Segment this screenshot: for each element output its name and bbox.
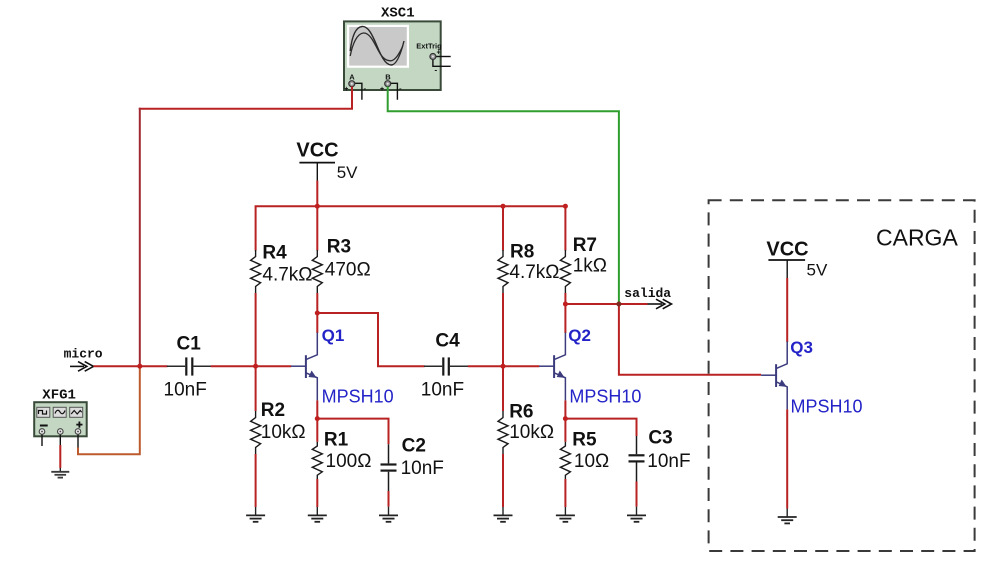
ground C2 <box>379 515 398 521</box>
junction VCC rail <box>315 204 320 209</box>
wire emitter node to C2 <box>316 419 388 445</box>
junction Q2 collector / salida <box>563 302 568 307</box>
wire R8 to R6 (through base node) <box>502 293 504 411</box>
wire micro to C1 <box>94 365 168 367</box>
junction salida green <box>616 302 621 307</box>
node micro input arrow <box>64 346 103 371</box>
transistor Q3 <box>761 342 787 410</box>
svg-text:R3: R3 <box>327 237 351 258</box>
svg-text:5V: 5V <box>807 261 828 280</box>
wire R1 to ground <box>316 479 318 507</box>
svg-text:R7: R7 <box>573 235 597 256</box>
wire collector tap to C4 <box>317 313 424 366</box>
XFG1 terminal plus <box>75 429 81 448</box>
junction R8-R6 / Q2 base <box>501 364 506 369</box>
resistor R6 <box>498 411 508 454</box>
wire R3 to Q1 collector <box>316 293 318 333</box>
capacitor C4 <box>424 357 468 375</box>
svg-text:C3: C3 <box>648 428 672 449</box>
capacitor C1 <box>167 357 212 375</box>
wire R4 to R2 (through base node) <box>255 293 257 411</box>
svg-text:Q2: Q2 <box>568 326 591 345</box>
scope channel B terminal <box>380 73 402 100</box>
ground Q3 <box>778 517 797 523</box>
wire R2 to ground <box>255 454 257 507</box>
svg-text:VCC: VCC <box>296 140 338 162</box>
wire Q2 collector to salida <box>565 303 647 305</box>
svg-text:10kΩ: 10kΩ <box>261 422 306 443</box>
svg-text:R8: R8 <box>510 242 534 263</box>
svg-text:MPSH10: MPSH10 <box>791 397 863 417</box>
resistor R3 <box>312 250 322 293</box>
wire scope B green <box>388 87 619 305</box>
svg-text:R5: R5 <box>572 430 597 451</box>
ground C3 <box>627 515 646 521</box>
svg-text:10nF: 10nF <box>164 380 207 401</box>
transistor Q1 <box>291 333 317 401</box>
wire C2 to ground <box>388 491 390 507</box>
junction Q2 emitter node <box>563 416 568 421</box>
svg-text:4.7kΩ: 4.7kΩ <box>509 262 559 283</box>
svg-text:Q1: Q1 <box>322 326 345 345</box>
svg-text:R6: R6 <box>509 402 533 423</box>
svg-text:C2: C2 <box>402 436 426 457</box>
wire rail to R3 <box>316 206 318 250</box>
ground R6 <box>494 515 513 521</box>
load box CARGA (dashed) <box>709 200 975 551</box>
svg-text:1kΩ: 1kΩ <box>573 256 607 277</box>
wire C4 to Q2 base <box>468 365 540 367</box>
ground R5 <box>556 515 575 521</box>
node salida output arrow <box>624 286 671 309</box>
wire VCC rail <box>255 205 567 207</box>
svg-text:salida: salida <box>624 286 671 301</box>
svg-text:5V: 5V <box>337 163 358 182</box>
wire scope A vertical <box>351 87 353 109</box>
resistor R1 <box>312 442 322 479</box>
wire R6 to ground <box>502 454 504 507</box>
ground XFG1 <box>51 472 69 478</box>
svg-text:MPSH10: MPSH10 <box>322 387 394 407</box>
svg-text:4.7kΩ: 4.7kΩ <box>262 265 312 286</box>
wire salida node to Q3 base <box>619 303 761 375</box>
wire emitter node to C3 <box>564 419 636 436</box>
wire VCC to Q3 collector <box>786 278 788 342</box>
wire VCC stem <box>316 181 318 208</box>
junction C1 / R4-R2 <box>253 364 258 369</box>
svg-text:10nF: 10nF <box>647 451 690 472</box>
wire R5 to ground <box>564 479 566 507</box>
wire XFG1 plus to micro node (orange) <box>78 365 140 454</box>
svg-text:10Ω: 10Ω <box>574 451 609 472</box>
svg-text:VCC: VCC <box>766 239 808 261</box>
svg-text:10nF: 10nF <box>401 458 444 479</box>
transistor Q2 <box>539 333 565 401</box>
svg-text:-: - <box>399 84 402 93</box>
svg-text:micro: micro <box>64 346 103 361</box>
resistor R7 <box>560 250 570 293</box>
svg-text:Q3: Q3 <box>790 338 813 357</box>
svg-text:470Ω: 470Ω <box>325 260 371 281</box>
wire C1 to Q1 base <box>211 365 291 367</box>
svg-text:10nF: 10nF <box>421 380 464 401</box>
svg-text:R2: R2 <box>261 400 285 421</box>
svg-text:-: - <box>435 66 438 75</box>
svg-text:XSC1: XSC1 <box>381 6 415 22</box>
svg-text:XFG1: XFG1 <box>42 388 76 404</box>
wire scope A horizontal <box>139 108 353 110</box>
junction Q1 collector tap <box>315 311 320 316</box>
function generator XFG1 body <box>34 402 86 436</box>
wire rail to R8 <box>502 206 504 250</box>
resistor R2 <box>251 411 261 454</box>
wire XFG1 common to ground <box>59 445 61 468</box>
svg-text:R4: R4 <box>262 243 287 264</box>
wire C3 to ground <box>636 482 638 507</box>
wire Q3 emitter to ground <box>786 409 788 508</box>
capacitor C3 <box>629 436 645 482</box>
svg-text:CARGA: CARGA <box>876 225 958 251</box>
VCC symbol stage <box>296 140 358 183</box>
resistor R4 <box>251 250 261 293</box>
svg-text:100Ω: 100Ω <box>326 451 372 472</box>
svg-text:-: - <box>364 84 367 93</box>
svg-text:C4: C4 <box>435 331 460 352</box>
svg-text:10kΩ: 10kΩ <box>509 422 554 443</box>
svg-text:+: + <box>380 86 384 93</box>
VCC symbol carga <box>766 239 828 280</box>
capacitor C2 <box>381 444 397 491</box>
wire Q1 emitter down <box>316 400 318 441</box>
junction rail R7 <box>563 204 568 209</box>
junction rail R8 <box>501 204 506 209</box>
ground R2 <box>246 515 265 521</box>
wire micro net vertical (dark) <box>139 108 141 366</box>
scope channel A terminal <box>344 73 366 100</box>
wire Q2 emitter down <box>564 400 566 441</box>
XFG1 terminal common <box>58 429 64 445</box>
ground R1 <box>308 515 327 521</box>
junction Q1 emitter node <box>315 416 320 421</box>
svg-text:+: + <box>437 50 441 57</box>
resistor R8 <box>498 250 508 293</box>
oscilloscope XSC1 body <box>344 21 441 90</box>
svg-text:R1: R1 <box>324 430 349 451</box>
svg-text:+: + <box>344 86 348 93</box>
wire rail to R4 <box>255 206 257 250</box>
XFG1 terminal minus <box>39 429 45 446</box>
resistor R5 <box>560 442 570 479</box>
wire rail to R7 <box>564 206 566 250</box>
svg-text:C1: C1 <box>177 334 202 355</box>
svg-text:MPSH10: MPSH10 <box>569 387 641 407</box>
ExtTrig terminal <box>416 41 450 74</box>
junction micro node <box>137 364 142 369</box>
wire R7 to Q2 collector <box>564 293 566 333</box>
